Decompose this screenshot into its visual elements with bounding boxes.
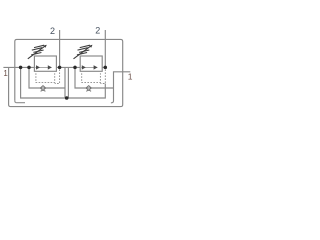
node: right output port 2 bbox=[104, 66, 108, 70]
regulator R1 valve body bbox=[34, 56, 56, 71]
wire: input line port 1 bbox=[3, 66, 34, 68]
node: left output port 2 bbox=[58, 66, 62, 70]
wire: outer frame (port1 loop) bbox=[9, 39, 123, 106]
regulator R1 flow path arrows bbox=[35, 66, 51, 68]
wire: right port 2 riser bbox=[104, 30, 106, 67]
wire: right inner drop bbox=[67, 67, 69, 98]
junction dots bbox=[19, 66, 107, 100]
wire: left port 2 riser bbox=[59, 30, 61, 67]
node: left check return bbox=[65, 96, 69, 100]
node: left check tap bbox=[27, 66, 31, 70]
regulator R1 adjustable spring bbox=[28, 45, 46, 59]
wire: flow line between modules bbox=[56, 66, 80, 68]
svg-text:1: 1 bbox=[128, 72, 133, 82]
node: inner loop tap bbox=[19, 66, 23, 70]
regulator R1 pilot line (dashed) bbox=[36, 69, 60, 83]
wire: right module flow out bbox=[102, 66, 105, 68]
regulator R2 adjustable spring bbox=[74, 45, 92, 59]
wire: middle bottom line left stub bbox=[15, 101, 25, 103]
regulator R2 valve body bbox=[80, 56, 102, 71]
wire: inner bottom loop bbox=[21, 67, 106, 98]
regulator R2 flow path arrows bbox=[81, 66, 97, 68]
svg-text:2: 2 bbox=[50, 26, 55, 36]
check valve CV2 bbox=[86, 86, 91, 91]
node: right check tap bbox=[73, 66, 77, 70]
wire: right exit riser and port 1 line bbox=[111, 72, 130, 103]
regulator R2 pilot line (dashed) bbox=[82, 69, 106, 83]
svg-text:2: 2 bbox=[95, 26, 100, 36]
wire: right check-valve branch bbox=[75, 67, 114, 88]
wire: left check-valve branch bbox=[29, 67, 65, 88]
wire: left check connector bbox=[64, 67, 66, 98]
check valve CV1 bbox=[40, 86, 45, 91]
svg-text:1: 1 bbox=[3, 69, 8, 78]
